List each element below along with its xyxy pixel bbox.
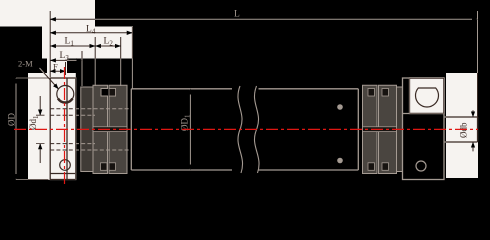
right coupling clamp columns xyxy=(363,85,397,173)
right coupling slit + notches (dark) xyxy=(363,89,397,171)
right coupling hub ring xyxy=(397,87,403,172)
red vertical centerline (flange axis) xyxy=(64,67,66,184)
left coupling clamp column A xyxy=(93,85,127,173)
white patch: dims step block xyxy=(42,27,133,59)
ink over white patches (dark) xyxy=(7,10,478,180)
white patch: right column xyxy=(446,73,478,178)
white patch: F block xyxy=(47,59,67,74)
left coupling slit + notches (dark) xyxy=(93,89,127,171)
white patch: left column + flange xyxy=(28,73,76,180)
white patch: top-left corner block xyxy=(0,0,95,27)
black canvas xyxy=(0,0,490,190)
ink over black background (gray) xyxy=(7,10,478,180)
red horizontal centerline (main axis) xyxy=(14,128,478,130)
left coupling hub ring xyxy=(81,87,94,172)
white patch: bearing square xyxy=(410,78,445,114)
